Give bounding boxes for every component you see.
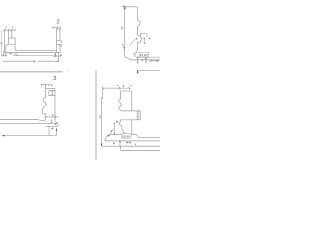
figure 1 left vertical dimension line [124, 7, 126, 57]
figure 4 base cove arc [105, 134, 110, 141]
figure 4 rib dimension arrows [137, 111, 140, 120]
figure 2 web top line [15, 49, 57, 51]
svg-text:4: 4 [135, 142, 137, 146]
figure 4 top dimension line [103, 87, 131, 89]
figure 2 outer left extension line [0, 30, 2, 55]
figure 4 left vertical dimension line [101, 97, 103, 146]
figure 3 board top line [0, 118, 37, 120]
svg-text:4: 4 [5, 26, 7, 30]
figure 3 junction thickness dimension arrows [51, 120, 57, 126]
figure 4 rib top line [121, 110, 141, 112]
figure 3 profile right edge [54, 89, 56, 122]
figure 4 lowest dimension line [121, 146, 160, 150]
figure 1 top edge line [124, 6, 136, 8]
figure 2 groove dimension ticks [60, 41, 62, 47]
figure 3 profile top edge [46, 88, 56, 90]
sheet border vertical line bottom-right [95, 70, 97, 160]
figure 2 left top dimension line [4, 29, 16, 31]
svg-text:4: 4 [110, 129, 112, 133]
figure 4 board top step and line [136, 134, 160, 137]
figure 3 profile bottom edge [45, 121, 58, 126]
figure 2 bottom-left small dimension marks [1, 52, 18, 56]
svg-text:4: 4 [12, 26, 14, 30]
figure 4 profile right edge upper [131, 91, 133, 111]
figure 1 board top line [137, 56, 160, 58]
figure 3 profile left contour with ogee curves [42, 89, 46, 121]
svg-text:95,90°: 95,90° [122, 134, 132, 138]
svg-text:4: 4 [51, 83, 53, 87]
figure 3 mid dimension line with value 4 [45, 116, 59, 118]
figure 1 board corner dimension with arrows [137, 57, 139, 63]
figure 2 right upstand [57, 29, 60, 52]
figure 4 base top line [110, 133, 136, 135]
figure 4 profile left edge with ogee curves [119, 91, 122, 111]
figure 1 bottom edge diagonal [125, 56, 131, 60]
figure 2 web bottom line [6, 52, 61, 54]
svg-text:44: 44 [120, 26, 124, 30]
figure 4 mid vertical dimension with arrows and value [113, 123, 115, 135]
figure 3 board step at junction [37, 118, 45, 121]
figure 4 rib right edge [139, 111, 141, 120]
figure 3 notch dimension arrows [51, 91, 53, 96]
figure 1 lower dimension line [137, 70, 160, 74]
figure 1 right contour with ogee and bead [133, 7, 141, 55]
figure 1 angle label box 95,90 [139, 52, 149, 57]
figure 1 bead vertical dimension with arrows [144, 37, 151, 44]
figure 4 rib bottom line [121, 119, 141, 121]
sheet border bottom of figure 2 [0, 71, 63, 73]
figure 1 board bottom line [131, 59, 160, 61]
figure 2 lower dimension line with riser [3, 53, 60, 63]
svg-text:3: 3 [53, 76, 56, 82]
figure 4 radius leader arrow [108, 128, 114, 136]
figure 1 radius leader arc [129, 39, 137, 47]
figure 2 below right upstand tick [53, 53, 58, 58]
figure 4 right edge lower [131, 120, 133, 135]
figure 4 below-board dimension ticks [113, 141, 131, 146]
figure 2 left vertical dimension line [3, 29, 5, 53]
figure 3 top dimension line with value 4 [41, 84, 50, 89]
figure 1 bead dimension bracket [140, 33, 147, 37]
svg-text:95,90°: 95,90° [140, 53, 150, 57]
figure 3 notch rectangle [49, 91, 55, 96]
svg-text:2: 2 [57, 20, 60, 26]
figure 1 top dimension tick [122, 5, 126, 8]
figure 2 lower dimension plus marks [60, 54, 63, 57]
figure 4 left edge plus mark [116, 121, 118, 123]
svg-text:4: 4 [52, 113, 54, 117]
svg-text:,: , [63, 66, 64, 69]
figure 4 top-left extension line [102, 88, 104, 99]
figure 3 lower tick marks [51, 127, 53, 129]
figure 3 lower extension line [48, 126, 50, 135]
figure 2 top-right dimension line with value 4 [52, 26, 59, 28]
svg-text:4: 4 [122, 85, 124, 89]
figure 2 left upstand lip [9, 30, 12, 38]
svg-text:4: 4 [122, 42, 124, 46]
figure 2 intermediate dimension line [13, 54, 58, 56]
figure 4 bottom dimension line [102, 145, 161, 147]
figure 4 angle label box 95,90 [122, 134, 131, 138]
svg-text:12: 12 [0, 41, 4, 44]
figure 4 top dimension ticks and value [102, 85, 132, 89]
figure 1 bottom corner to board [134, 54, 137, 57]
svg-text:44: 44 [98, 115, 102, 119]
figure 4 base bottom line [105, 140, 160, 142]
figure 2 left upstand block [6, 38, 15, 53]
figure 4 profile top edge [121, 90, 132, 92]
figure 4 quarter round corner [122, 129, 128, 135]
figure 4 left edge lower with second bump [119, 120, 122, 129]
figure 3 board bottom line [0, 122, 58, 124]
figure 2 right upstand groove lines [57, 41, 61, 45]
figure 3 overall dimension line with corner riser [2, 128, 57, 136]
svg-text:48: 48 [32, 59, 36, 63]
